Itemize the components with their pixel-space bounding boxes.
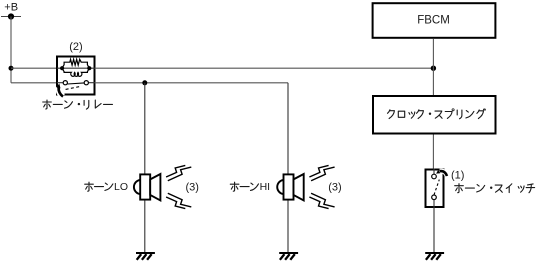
wire horn switch to ground [433, 208, 435, 253]
svg-text:(3): (3) [328, 181, 341, 193]
horn LO symbol [134, 174, 161, 200]
relay actuation arrow [58, 87, 63, 97]
junction node horn LO [142, 80, 147, 85]
relay node right dot [87, 66, 91, 70]
wire horn HI to ground [287, 200, 289, 252]
horn switch contact bottom [432, 195, 437, 200]
relay label horn relay kana [43, 100, 113, 109]
svg-text:HI: HI [260, 181, 271, 193]
clock spring label kana [388, 109, 486, 119]
relay node left dot [60, 66, 64, 70]
horn HI sound bolt upper [309, 165, 334, 180]
svg-text:LO: LO [114, 181, 128, 193]
relay coil branch [62, 68, 89, 76]
wire down to horn HI [287, 83, 289, 174]
relay internal wire upper [57, 67, 95, 69]
relay switch blade [67, 83, 84, 84]
FBCM box [373, 3, 496, 38]
ground under horn switch [425, 253, 444, 260]
power +B terminal dot [8, 13, 14, 19]
horn LO label kana [85, 182, 113, 191]
relay contact right [84, 81, 88, 85]
wire down to horn LO [144, 83, 146, 174]
horn HI sound bolt lower [309, 193, 334, 208]
svg-text:(2): (2) [69, 41, 82, 53]
junction node at +B branch [9, 66, 14, 71]
horn switch actuation arrow [440, 171, 447, 176]
ground under horn LO [136, 253, 155, 260]
clock spring box [373, 96, 496, 134]
horn relay box outline [57, 57, 95, 95]
wire relay switch to horns [95, 82, 288, 84]
svg-text:+B: +B [4, 1, 18, 13]
svg-text:FBCM: FBCM [417, 15, 450, 27]
relay switch blade alternate dashed [66, 87, 80, 90]
wire relay coil to FBCM junction [95, 67, 434, 69]
junction node FBCM [431, 66, 436, 71]
horn HI label kana [230, 182, 258, 191]
horn switch wire bottom stub [433, 200, 435, 208]
horn LO sound bolt lower [166, 193, 191, 208]
wire FBCM to clock spring [432, 39, 434, 95]
wire +B to relay switch input [11, 82, 56, 84]
relay resistor branch [62, 59, 89, 68]
svg-text:(1): (1) [451, 170, 464, 182]
power +B terminal bar [1, 16, 21, 18]
horn switch box [426, 170, 444, 208]
wire +B junction to relay coil input [11, 67, 56, 69]
relay switch wire stubs [57, 82, 95, 84]
wire horn LO to ground [144, 200, 146, 252]
horn switch blade dashed [434, 180, 439, 195]
relay contact left [63, 81, 67, 85]
horn switch label kana [455, 184, 535, 193]
horn LO sound bolt upper [166, 165, 191, 180]
svg-text:(3): (3) [185, 181, 198, 193]
horn switch wire top stub [433, 169, 435, 175]
horn switch contact top [432, 174, 437, 179]
horn HI symbol [277, 174, 304, 200]
wire from +B down [10, 17, 12, 83]
ground under horn HI [279, 253, 298, 260]
wire clock spring to horn switch [432, 135, 434, 169]
